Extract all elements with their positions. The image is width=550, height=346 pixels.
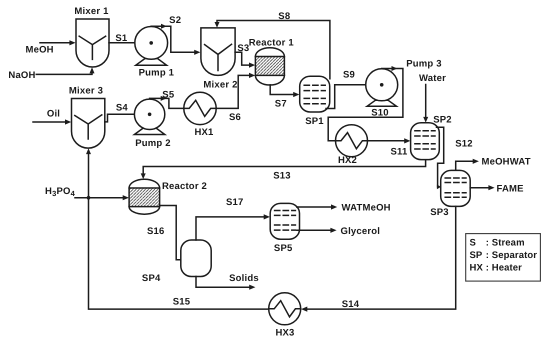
svg-text:Glycerol: Glycerol [341,226,381,237]
separator SP4 vessel [181,240,211,277]
svg-text:Mixer 1: Mixer 1 [74,6,109,17]
svg-text:S1: S1 [115,33,128,44]
svg-text:Solids: Solids [229,273,259,284]
svg-text:H3PO4: H3PO4 [45,186,76,198]
svg-text:S5: S5 [162,89,175,100]
svg-text:S8: S8 [278,11,290,22]
reactor R1 vessel [255,48,284,85]
legend box [466,234,541,282]
svg-text:SP5: SP5 [274,243,293,254]
svg-text:: Stream: : Stream [486,238,525,249]
mixer M2 vessel [201,28,235,76]
wire S16 [159,206,181,260]
svg-text:S17: S17 [226,197,244,208]
separator SP3 trays [445,178,466,197]
heater HX2 coil [336,133,368,149]
wire S6 [216,75,250,108]
reactor R1 hatch band [255,57,284,76]
wire S15 recycle [89,154,269,309]
wire SP1 bottom to S9 [326,85,382,109]
wire H3PO4 feed [75,197,124,199]
svg-text:: Heater: : Heater [486,262,522,273]
pump P1 base [136,59,167,66]
svg-text:S10: S10 [371,107,389,118]
heater HX3 body [269,293,301,325]
svg-text:HX3: HX3 [275,327,294,338]
pump P1 body [135,27,168,60]
wire S13 [143,160,425,174]
wire S5 [150,98,184,108]
wire Oil feed [33,121,66,123]
svg-text:S3: S3 [237,43,249,54]
wire S4 [105,114,150,122]
mixer M1 vessel [76,19,109,67]
svg-text:S2: S2 [169,15,181,26]
svg-text:S: S [470,238,476,249]
separator SP2 trays [415,131,435,149]
wire Solids [196,277,250,288]
pump P3 body [366,69,398,101]
wire S14 [307,207,456,310]
wire WATMeOH product [297,206,332,208]
svg-text:MeOH: MeOH [25,45,53,56]
wire Water feed [425,85,427,118]
mixer M3 impeller [75,115,102,139]
svg-text:Water: Water [419,73,446,84]
svg-text:SP: SP [470,250,483,261]
heater HX1 body [184,92,216,124]
separator SP5 vessel [270,203,299,239]
svg-text:SP3: SP3 [430,207,449,218]
reactor R2 vessel [129,179,160,214]
heater HX3 coil [269,301,301,317]
svg-text:Mixer 2: Mixer 2 [203,80,237,91]
svg-text:Pump 3: Pump 3 [406,58,442,69]
wire S11 [368,140,406,142]
svg-text:FAME: FAME [497,184,524,195]
pump P3 base [367,100,397,106]
svg-text:HX: HX [470,262,484,273]
svg-text:S11: S11 [391,147,408,158]
separator SP1 trays [304,85,325,104]
junction S15/H3PO4 [87,196,91,200]
wire S3 [235,52,250,65]
svg-text:S15: S15 [173,296,191,307]
svg-text:Oil: Oil [47,108,60,119]
svg-text:SP2: SP2 [433,114,452,125]
svg-text:S16: S16 [147,226,165,237]
heater HX2 body [336,125,368,157]
wire NaOH feed [36,73,92,75]
svg-text:HX2: HX2 [338,155,357,166]
svg-text:S4: S4 [116,102,129,113]
wire Glycerol product [297,229,331,231]
wire S7 [270,85,294,95]
svg-text:S7: S7 [275,99,287,110]
svg-text:HX1: HX1 [194,127,214,138]
wire S1 [109,42,150,44]
svg-text:S14: S14 [342,299,360,310]
wire S10 [328,69,403,141]
mixer M2 impeller [205,44,232,70]
pump P2 base [134,128,164,135]
svg-text:WATMeOH: WATMeOH [342,203,391,214]
svg-text:Pump 2: Pump 2 [135,138,171,149]
pump P2 body [134,99,164,129]
separator SP3 vessel [441,170,471,206]
wire S8 recycle [217,21,330,79]
svg-text:Reactor 1: Reactor 1 [249,38,295,49]
svg-text:Pump 1: Pump 1 [139,67,175,78]
wire FAME product [470,187,489,189]
heater HX1 coil [184,100,216,116]
svg-text:S12: S12 [455,138,473,149]
reactor R2 hatch band [129,188,160,207]
separator SP5 trays [275,211,296,231]
svg-text:S9: S9 [343,70,355,81]
svg-text:SP4: SP4 [142,273,161,284]
wire S17 [196,217,265,240]
svg-text:Mixer 3: Mixer 3 [69,85,103,96]
wire S2 [151,26,195,52]
wire MeOH feed [40,42,70,44]
wire S12 [437,127,444,187]
svg-text:S13: S13 [273,171,291,182]
svg-text:Reactor 2: Reactor 2 [162,181,207,192]
wire MeOHWAT product [456,161,474,170]
separator SP1 vessel [300,76,330,112]
svg-text:MeOHWAT: MeOHWAT [482,157,531,168]
svg-text:S6: S6 [229,112,241,123]
separator SP2 vessel [411,123,440,160]
svg-text:: Separator: : Separator [486,250,537,261]
svg-text:NaOH: NaOH [8,70,35,81]
mixer M1 impeller [79,36,105,59]
svg-text:SP1: SP1 [305,116,324,127]
mixer M3 vessel [72,99,105,149]
